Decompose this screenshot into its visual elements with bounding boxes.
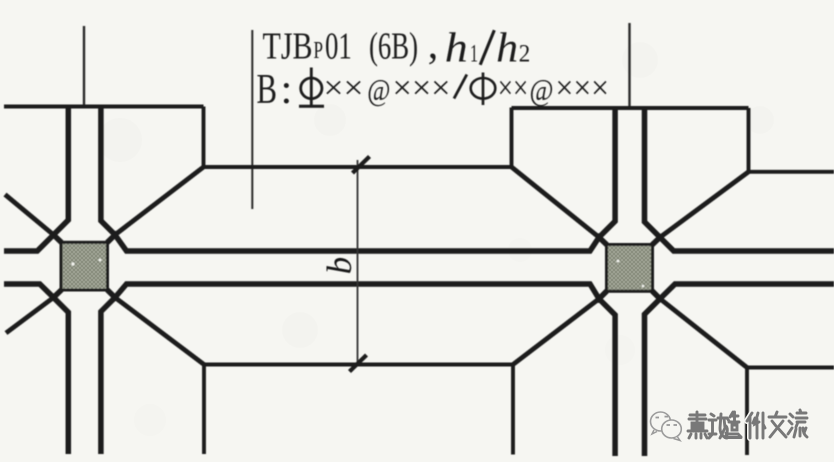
label B: [257, 66, 293, 113]
footing edge upper-right [512, 106, 749, 110]
vertical beam left column upper-right edge [101, 107, 115, 235]
vertical beam left column upper-left edge [54, 107, 69, 235]
beam bottom edge middle segment [107, 284, 607, 299]
leader line [251, 30, 253, 209]
svg-text:××: ×× [498, 70, 529, 106]
watermark logo bubbles [651, 412, 682, 441]
footing edge upper-mid [204, 165, 512, 169]
dimension tick upper [353, 157, 370, 174]
slope diagonal upper-right-inner [512, 167, 600, 237]
vertical beam right column upper-right edge [645, 108, 661, 237]
slope diagonal lower-far-right [660, 299, 747, 368]
svg-text:1: 1 [470, 41, 478, 68]
footing edge bottom far-right [747, 366, 834, 370]
footing side far-right [745, 368, 749, 456]
beam bottom edge left segment [4, 284, 62, 298]
svg-text:b: b [320, 257, 359, 275]
slope diagonal upper-left-inner [115, 167, 204, 235]
footing step left [202, 107, 206, 168]
grid line (left column axis) [83, 26, 85, 105]
svg-text:(6B): (6B) [369, 26, 418, 68]
footing edge top far-right [749, 170, 834, 174]
grid line (right column axis) [628, 23, 630, 107]
svg-text::: : [281, 66, 293, 113]
column specks [71, 259, 644, 288]
rebar symbol phi 2 [471, 73, 496, 106]
label TJBp01 (6B) [263, 22, 439, 68]
svg-text:P: P [314, 38, 324, 64]
rebar symbol phi 1 (underlined) [299, 68, 324, 107]
beam bottom edge right segment [652, 284, 834, 299]
svg-text:TJB: TJB [263, 26, 313, 68]
watermark text (stylized strokes) [688, 410, 807, 438]
slash h1/h2 [480, 30, 494, 65]
label xx@xxx (first) [324, 70, 451, 107]
footing edge upper-left [4, 105, 204, 109]
column right (hatched) [607, 245, 653, 292]
vertical beam left column lower-left edge [54, 298, 69, 455]
beam top edge left segment [4, 235, 62, 251]
vertical beam right column upper-left edge [599, 108, 615, 237]
svg-text:@: @ [530, 72, 554, 107]
svg-text:×××: ××× [556, 70, 610, 106]
footing side lower-right [511, 365, 515, 455]
slash [454, 75, 467, 99]
slope diagonal upper-far-left [5, 195, 54, 235]
dimension tick lower [350, 355, 367, 372]
scan speckle [98, 42, 774, 436]
slope diagonal lower-right-inner [513, 299, 599, 365]
svg-text:01: 01 [325, 26, 352, 68]
svg-text:h: h [496, 26, 518, 72]
svg-text:h: h [445, 26, 468, 72]
footing edge lower-mid [204, 363, 513, 367]
svg-text:××: ×× [324, 70, 364, 106]
footing side lower-left [202, 365, 206, 455]
vertical beam right column lower-left edge [599, 299, 615, 456]
slope diagonal lower-left-inner [115, 298, 204, 365]
svg-text:,: , [428, 22, 439, 68]
svg-text:×××: ××× [393, 70, 451, 106]
label h1/h2 [445, 26, 478, 72]
label xx@xxx (second) [498, 70, 609, 107]
column left (hatched) [61, 242, 108, 290]
vertical beam left column lower-right edge [101, 298, 115, 455]
beam top edge middle segment [107, 235, 607, 251]
svg-text:B: B [257, 66, 278, 113]
vertical beam right column lower-right edge [645, 299, 661, 456]
footing step far-right [747, 108, 751, 172]
slope diagonal lower-far-left [6, 298, 54, 334]
footing step right-inner [510, 108, 514, 168]
beam top edge right segment [652, 237, 834, 251]
svg-text:2: 2 [519, 41, 531, 68]
dimension line b [357, 160, 359, 364]
slope diagonal upper-far-right [660, 172, 749, 238]
svg-text:@: @ [367, 72, 390, 107]
